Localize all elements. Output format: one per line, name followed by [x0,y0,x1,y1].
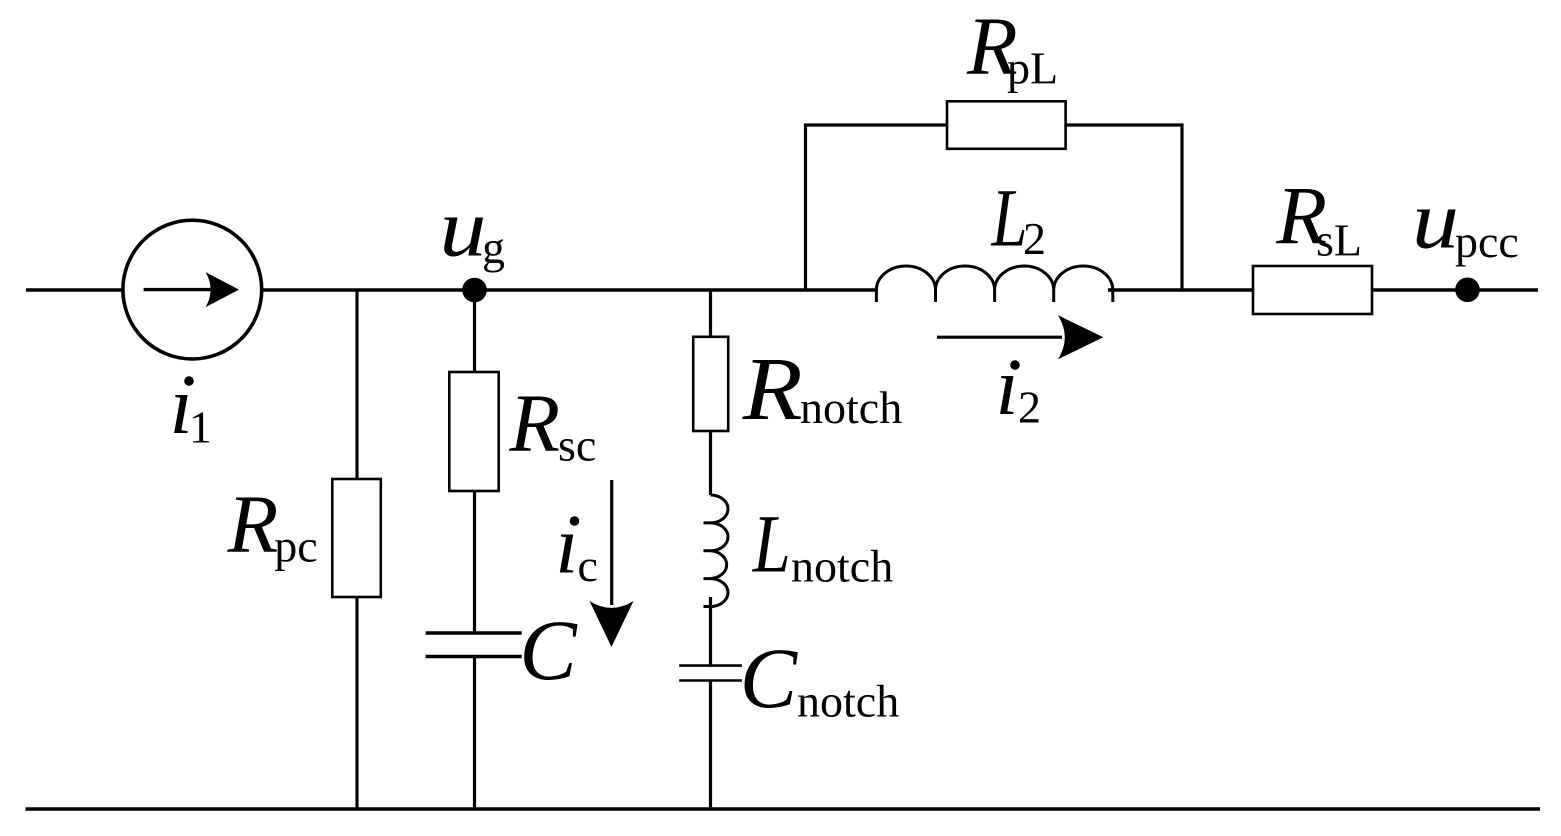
svg-text:notch: notch [791,540,893,591]
svg-text:2: 2 [1023,213,1046,264]
svg-text:R: R [227,478,279,570]
svg-text:u: u [1412,174,1459,266]
svg-text:sL: sL [1316,214,1362,265]
svg-text:u: u [440,181,487,273]
svg-text:1: 1 [189,402,212,453]
svg-text:sc: sc [558,420,596,471]
svg-text:L: L [752,497,791,589]
svg-text:R: R [742,340,803,439]
svg-text:C: C [519,602,578,698]
svg-text:notch: notch [797,676,899,727]
svg-text:2: 2 [1018,382,1041,433]
svg-text:notch: notch [800,382,902,433]
svg-text:pcc: pcc [1455,216,1519,267]
svg-text:pc: pc [274,521,317,572]
svg-text:R: R [508,377,560,469]
svg-text:pL: pL [1007,43,1058,94]
svg-text:g: g [482,222,505,273]
svg-text:L: L [991,172,1028,264]
svg-text:c: c [578,540,598,591]
svg-text:ı: ı [996,340,1019,432]
svg-text:C: C [740,630,799,726]
svg-text:ı: ı [555,499,578,591]
